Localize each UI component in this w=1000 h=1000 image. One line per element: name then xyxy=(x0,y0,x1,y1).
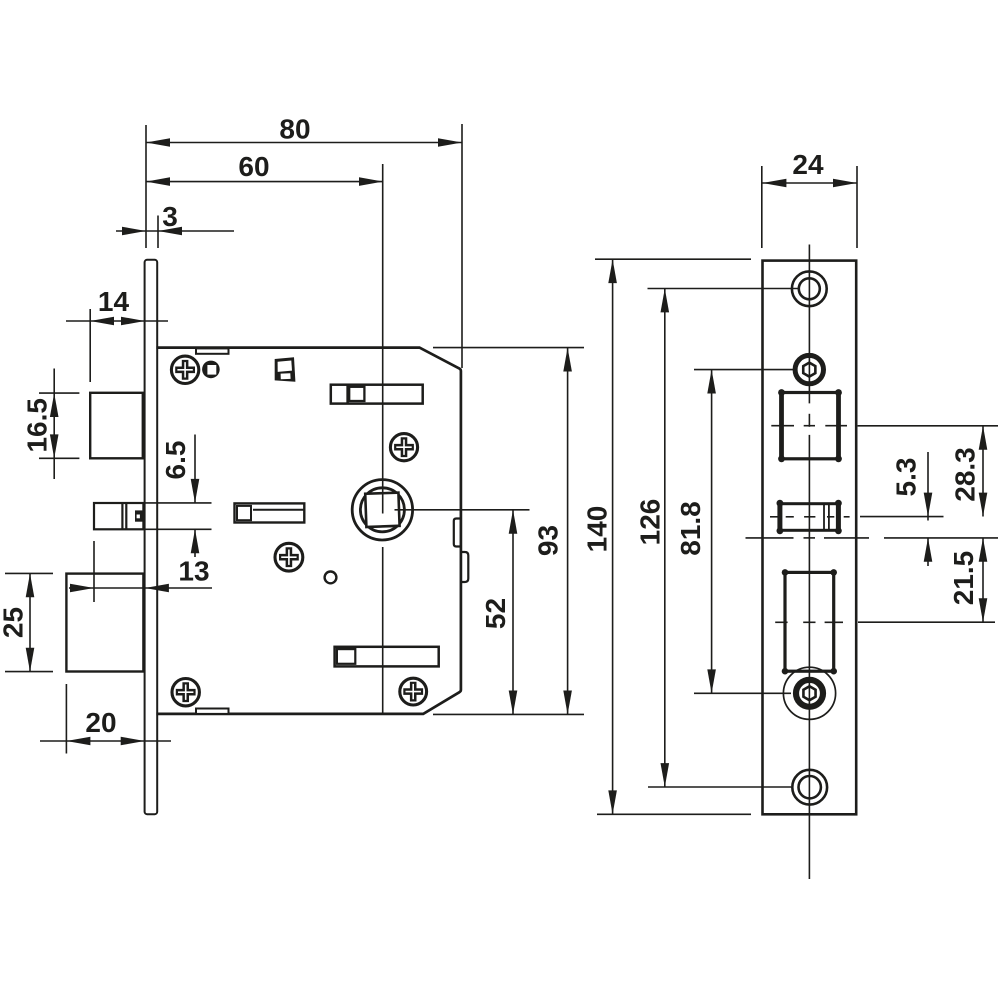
dim 52 arrows xyxy=(509,510,518,534)
ext body top xyxy=(433,347,584,349)
hex set screw xyxy=(795,355,823,383)
cylinder pin hole xyxy=(325,572,337,584)
latch window xyxy=(782,393,839,459)
top screw hole xyxy=(792,271,827,306)
right edge outer tab xyxy=(461,552,468,582)
svg-text:93: 93 xyxy=(533,525,564,556)
dim 81.8 line xyxy=(711,370,713,694)
ext plate top xyxy=(595,258,751,260)
svg-text:81.8: 81.8 xyxy=(675,501,706,556)
top tab xyxy=(196,348,229,353)
svg-text:16.5: 16.5 xyxy=(22,398,53,453)
auxiliary bolt black stop xyxy=(135,510,144,521)
screw top-left xyxy=(171,356,198,383)
ext plate bottom xyxy=(597,813,751,815)
screw bottom-right xyxy=(400,678,427,705)
dim 24 arrows xyxy=(762,179,786,188)
latch window centerline xyxy=(771,425,998,427)
ext bottom screw xyxy=(648,786,791,788)
ext deadbolt bottom xyxy=(5,671,53,673)
dim 5.3 upper shaft xyxy=(927,452,929,521)
dim 13 line xyxy=(69,587,212,589)
vertical centerline xyxy=(382,164,384,514)
bottom screw hole xyxy=(792,770,827,805)
svg-text:6.5: 6.5 xyxy=(160,441,191,480)
arrowheads left view xyxy=(26,138,572,745)
svg-text:126: 126 xyxy=(635,499,666,546)
dim 3 line xyxy=(116,230,234,232)
dim 126 line xyxy=(664,289,666,788)
screw center xyxy=(275,543,303,571)
dim 81.8 arrows xyxy=(707,370,716,394)
dim 6.5 arrows xyxy=(191,479,200,503)
arrowheads right view xyxy=(608,179,987,815)
ext tick faceplate back xyxy=(157,216,159,249)
dim 24 line xyxy=(762,182,857,184)
svg-text:20: 20 xyxy=(85,707,116,738)
deadbolt xyxy=(66,574,143,672)
dim 3 arrows xyxy=(122,227,146,236)
dim 20 line xyxy=(40,740,171,742)
aux window centerline xyxy=(770,516,944,518)
ext latch bottom xyxy=(39,457,79,459)
dim 25 line xyxy=(29,573,31,671)
svg-text:5.3: 5.3 xyxy=(891,458,922,497)
dim 20 arrows xyxy=(66,737,90,746)
horizontal centerline xyxy=(395,509,530,511)
latch bolt xyxy=(90,393,143,459)
bottom tab xyxy=(196,709,229,714)
middle lever bar xyxy=(235,503,305,522)
dim 14 line xyxy=(66,320,168,322)
deadbolt window xyxy=(785,572,834,671)
ext line latch front xyxy=(89,309,91,382)
stamped flag piece xyxy=(275,357,296,382)
dim 28.3 line xyxy=(982,426,984,517)
faceplate front plate xyxy=(763,261,857,815)
dim 21.5 arrows xyxy=(979,538,988,562)
dim 14 arrows xyxy=(90,317,114,326)
dim 28.3 arrows xyxy=(979,426,988,450)
aux window xyxy=(780,504,839,531)
dim 140 line xyxy=(612,259,614,814)
dim 25 arrows xyxy=(26,573,35,597)
svg-text:24: 24 xyxy=(792,149,824,180)
dim 21.5 line xyxy=(982,538,984,622)
dim 93 line xyxy=(567,348,569,715)
ext hex bottom xyxy=(694,692,791,694)
ext tick plate left xyxy=(761,166,763,248)
faceplate xyxy=(145,260,158,814)
deadbolt window centerline xyxy=(775,621,995,623)
dim 6.5 lower shaft xyxy=(194,529,196,557)
dim 52 line xyxy=(512,510,514,715)
ext tick plate right xyxy=(856,166,858,248)
plate centerline xyxy=(808,245,810,880)
screw upper-right xyxy=(390,434,417,461)
right edge inner tab xyxy=(454,519,461,547)
svg-text:140: 140 xyxy=(582,506,613,553)
lock body outline xyxy=(156,348,461,714)
dim 60 arrows xyxy=(146,177,170,186)
spindle follower xyxy=(352,480,412,540)
svg-text:21.5: 21.5 xyxy=(948,551,979,606)
upper lever bar xyxy=(331,385,423,404)
dim 126 arrows xyxy=(661,289,670,313)
dim 93 arrows xyxy=(563,348,572,372)
svg-text:3: 3 xyxy=(162,201,178,232)
ext hex top xyxy=(694,369,794,371)
svg-text:52: 52 xyxy=(480,598,511,629)
dim 80 line xyxy=(146,142,462,144)
svg-text:60: 60 xyxy=(238,151,269,182)
dim 6.5 upper shaft xyxy=(194,435,196,503)
dim 5.3 lower shaft xyxy=(927,538,929,566)
ext deadbolt top xyxy=(5,572,53,574)
dim 13 arrows xyxy=(70,584,94,593)
ext aux top xyxy=(145,502,212,504)
ext body bottom xyxy=(433,713,584,715)
black keeper disc xyxy=(202,361,220,379)
mid-height reference line xyxy=(746,537,999,539)
svg-text:80: 80 xyxy=(279,114,310,145)
screw bottom-left xyxy=(172,679,199,706)
ext aux bottom xyxy=(145,528,212,530)
dim 80 arrows xyxy=(146,138,170,147)
svg-text:13: 13 xyxy=(178,556,209,587)
dim 140 arrows xyxy=(608,259,617,283)
svg-text:28.3: 28.3 xyxy=(950,447,981,502)
ext top screw xyxy=(648,288,799,290)
ext line faceplate front xyxy=(145,125,147,248)
svg-text:25: 25 xyxy=(0,607,29,638)
dim 5.3 arrows xyxy=(924,493,933,517)
ext line body rear xyxy=(461,124,463,368)
lower lever bar xyxy=(335,647,439,667)
dim 16.5 arrows xyxy=(50,393,59,417)
ext deadbolt front xyxy=(65,684,67,754)
bottom hex screw xyxy=(783,667,835,719)
ext aux front xyxy=(93,541,95,602)
dim 60 line xyxy=(146,181,383,183)
svg-text:14: 14 xyxy=(98,286,130,317)
auxiliary bolt xyxy=(94,503,143,529)
ext latch top xyxy=(39,392,79,394)
dim 16.5 line xyxy=(53,369,55,480)
